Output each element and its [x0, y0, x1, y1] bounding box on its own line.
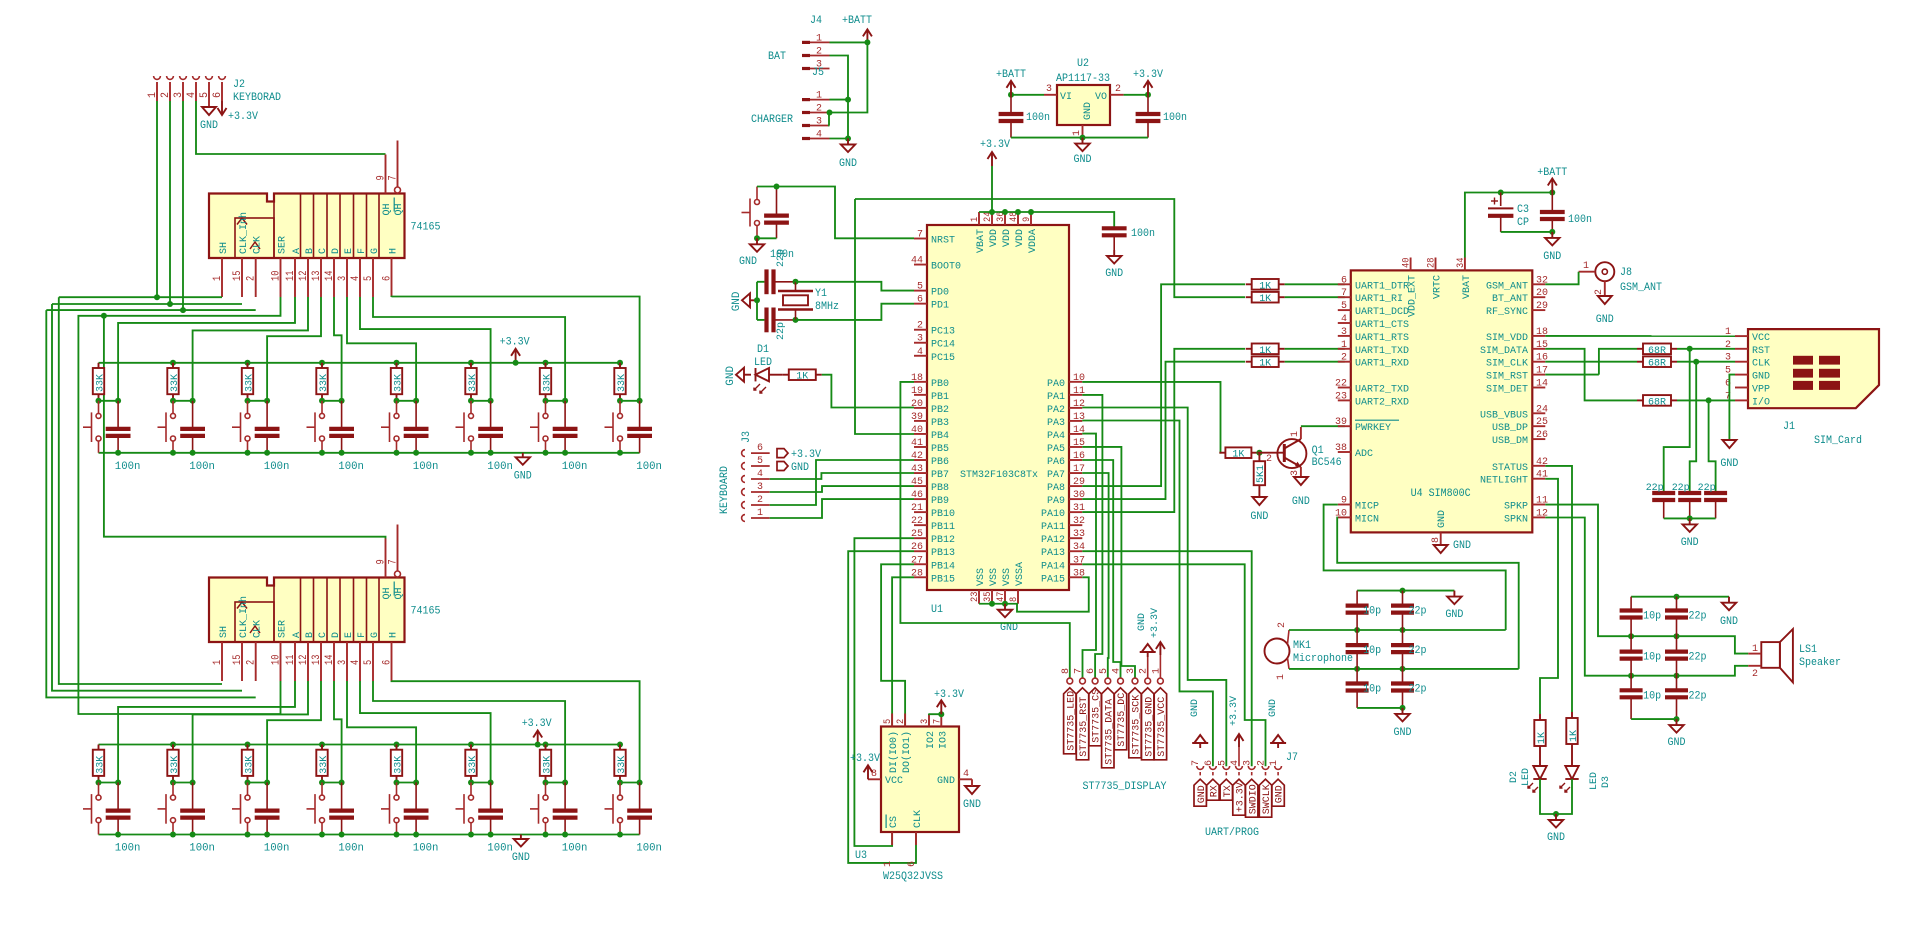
svg-text:5: 5 [363, 276, 375, 281]
svg-text:GND: GND [1436, 510, 1448, 528]
svg-text:A: A [291, 247, 303, 254]
U2 pin 3 VI [1044, 94, 1057, 96]
GSM module U4 SIM800C [1351, 270, 1533, 532]
capacitor 100n at VBAT [1551, 193, 1553, 213]
ground at mic caps top [1453, 591, 1455, 597]
svg-text:SIM_RST: SIM_RST [1486, 371, 1528, 383]
resistor 1K UART1_RI [1246, 296, 1252, 298]
svg-text:UART1_RI: UART1_RI [1355, 293, 1403, 305]
U4 pin 4 UART1_CTS [1338, 322, 1351, 324]
svg-text:PB1: PB1 [931, 391, 949, 403]
wire J2.2 down [169, 101, 171, 304]
switch key cell 4 [321, 783, 323, 796]
svg-text:PB7: PB7 [931, 469, 949, 481]
svg-text:GND: GND [200, 120, 218, 132]
svg-text:CLK: CLK [252, 619, 264, 638]
resistor 33K key cell 4 [319, 742, 325, 748]
svg-text:U1: U1 [931, 604, 943, 616]
wire STATUS to D3 [1545, 466, 1572, 712]
resistor 33K key cell 5 [394, 742, 400, 748]
wire PB13 to U3 CLK [848, 551, 916, 863]
svg-text:39: 39 [911, 411, 923, 423]
wire 74165a output to key cell [193, 297, 308, 401]
wire PB12 to U3 CS [854, 538, 914, 846]
ground at SIM pin5 [1722, 440, 1736, 448]
svg-text:D1: D1 [757, 344, 769, 356]
svg-text:PA7: PA7 [1047, 469, 1065, 481]
svg-text:+3.3V: +3.3V [1133, 69, 1163, 81]
switch key cell 8 [619, 783, 621, 796]
svg-text:GND: GND [1292, 496, 1310, 508]
svg-text:PB0: PB0 [931, 378, 949, 390]
wire PB15 to U3 DI [892, 577, 914, 726]
U5a pin 2 [255, 258, 257, 297]
U1 pin 9 VDDA [1030, 212, 1032, 225]
svg-text:74165: 74165 [411, 606, 441, 618]
svg-text:SER: SER [277, 235, 289, 254]
svg-text:6: 6 [917, 294, 923, 306]
svg-text:2: 2 [1752, 668, 1758, 680]
U5a pin 14 [333, 258, 335, 297]
svg-text:3: 3 [173, 92, 185, 98]
+3.3V symbol at U2 output [1147, 81, 1149, 95]
resistor 1K at D3 [1566, 718, 1577, 744]
svg-text:PB12: PB12 [931, 534, 955, 546]
J7 pin 2 SWCLK [1262, 766, 1269, 769]
svg-text:6: 6 [382, 660, 394, 665]
svg-text:6: 6 [1341, 274, 1347, 286]
wire 74165b output to key cell [193, 681, 308, 783]
switch key cell 1 [98, 783, 100, 796]
U1 pin 4 PC15 [914, 355, 927, 357]
flash memory U3 W25Q32JVSS [881, 727, 959, 833]
U4 pin 38 ADC [1338, 451, 1351, 453]
svg-text:2: 2 [917, 320, 923, 332]
svg-text:PA13: PA13 [1041, 547, 1065, 559]
resistor 1K UART1_TXD [1246, 348, 1252, 350]
wire 74165a output to key cell [347, 297, 416, 401]
svg-text:PA12: PA12 [1041, 534, 1065, 546]
svg-text:SPKN: SPKN [1504, 513, 1528, 525]
ground at U3 [965, 786, 979, 794]
global label +3.3V at J3.6 [777, 449, 788, 458]
svg-text:1K: 1K [1259, 345, 1272, 357]
svg-text:PB9: PB9 [931, 495, 949, 507]
svg-text:1K: 1K [796, 371, 809, 383]
U4 pin 20 BT_ANT [1532, 296, 1545, 298]
svg-text:1: 1 [757, 507, 763, 519]
wire bus J2.1 to 74165s pin1 [59, 296, 222, 298]
U1 pin 47 VSS [1004, 590, 1006, 604]
wire U2 ground rail [1011, 137, 1148, 139]
wire C3 ground [1501, 231, 1553, 233]
svg-text:USB_VBUS: USB_VBUS [1480, 409, 1528, 421]
U1 pin 41 PB5 [914, 446, 927, 448]
svg-text:1: 1 [1275, 674, 1287, 680]
svg-text:22p: 22p [1409, 684, 1427, 696]
svg-text:47: 47 [995, 592, 1007, 602]
svg-text:33K: 33K [467, 373, 479, 392]
svg-text:PA3: PA3 [1047, 417, 1065, 429]
svg-text:1K: 1K [1259, 358, 1272, 370]
J7 pin 1 GND [1275, 766, 1282, 769]
wire PA6 to display DC [1082, 460, 1120, 678]
svg-text:PB14: PB14 [931, 560, 955, 572]
svg-text:+3.3V: +3.3V [500, 336, 530, 348]
svg-text:GND: GND [1668, 737, 1686, 749]
svg-text:4: 4 [186, 92, 198, 98]
svg-text:41: 41 [911, 437, 923, 449]
ground at J4 [847, 139, 849, 145]
resistor 33K key cell 4 [319, 360, 325, 366]
svg-text:22p: 22p [1689, 652, 1707, 664]
svg-text:6: 6 [1085, 668, 1097, 674]
U1 pin 26 PB13 [914, 550, 927, 552]
GND at display pin2 [1147, 657, 1149, 678]
U1 pin 21 PB10 [914, 511, 927, 513]
U1 pin 25 PB12 [914, 537, 927, 539]
crystal Y1 8MHz [793, 279, 799, 285]
svg-text:1K: 1K [1569, 730, 1580, 742]
svg-text:GND: GND [1453, 540, 1471, 552]
svg-text:100n: 100n [1131, 228, 1155, 240]
svg-text:33K: 33K [616, 755, 628, 774]
svg-text:100n: 100n [487, 843, 513, 855]
svg-text:KEYBOARD: KEYBOARD [719, 466, 731, 514]
svg-text:44: 44 [911, 255, 923, 267]
svg-text:G: G [369, 248, 381, 254]
U1 pin 34 PA13 [1069, 550, 1082, 552]
svg-text:22p: 22p [1409, 645, 1427, 657]
capacitor 100n key cell 7 [564, 401, 566, 429]
svg-text:5: 5 [1341, 300, 1347, 312]
svg-text:6: 6 [757, 442, 763, 454]
svg-text:PB15: PB15 [931, 573, 955, 585]
wire PA15 to VSSA rail [1017, 577, 1089, 611]
wire SER1 bus to bottom block [78, 297, 280, 714]
svg-text:2: 2 [1266, 453, 1272, 465]
svg-text:CLK: CLK [1752, 358, 1771, 370]
resistor 33K key cell 1 [98, 363, 100, 368]
svg-text:1: 1 [1289, 431, 1301, 437]
svg-text:1: 1 [1268, 760, 1280, 766]
svg-text:U3: U3 [855, 850, 867, 862]
svg-text:UART2_RXD: UART2_RXD [1355, 396, 1409, 408]
svg-text:VDD: VDD [988, 229, 1000, 247]
svg-text:W25Q32JVSS: W25Q32JVSS [883, 871, 943, 883]
svg-text:PA1: PA1 [1047, 391, 1065, 403]
switch key cell 8 [619, 401, 621, 414]
svg-text:PA2: PA2 [1047, 404, 1065, 416]
capacitor 100n key cell 3 [266, 401, 268, 429]
shift register U5b 74165 body [209, 578, 405, 643]
wire reset RC [757, 187, 914, 239]
svg-text:VI: VI [1060, 91, 1072, 103]
U3 pin 8 VCC [868, 778, 881, 780]
svg-text:VO: VO [1095, 91, 1107, 103]
connector J2 KEYBORAD [154, 76, 161, 79]
svg-text:PA5: PA5 [1047, 443, 1065, 455]
display pin 3 ST7735_SCK [1132, 678, 1138, 684]
svg-text:Y1: Y1 [815, 288, 827, 300]
svg-text:ST7735_DC: ST7735_DC [1117, 693, 1128, 747]
U4 pin 7 UART1_RI [1338, 296, 1351, 298]
U5b pin 12 [307, 642, 309, 681]
U1 pin 32 PA11 [1069, 524, 1082, 526]
ground at SIM caps [1689, 518, 1691, 524]
+3.3V at display pin1 [1159, 655, 1161, 678]
svg-text:100n: 100n [1163, 112, 1187, 124]
wire I/O to 22p cap3 [1709, 400, 1716, 493]
capacitor 22p SIM 2 [1678, 491, 1701, 495]
svg-text:UART2_TXD: UART2_TXD [1355, 384, 1409, 396]
svg-text:GND: GND [1681, 537, 1699, 549]
svg-text:28: 28 [1426, 258, 1438, 268]
capacitor 10p mic row3 [1356, 669, 1358, 684]
svg-text:D: D [330, 632, 342, 638]
J1 pin 2 RST [1735, 348, 1748, 350]
+3.3V rail of key matrix [99, 744, 621, 746]
svg-text:22: 22 [911, 515, 923, 527]
U1 pin 14 PA4 [1069, 433, 1082, 435]
svg-text:10p: 10p [1363, 606, 1381, 618]
svg-text:PD1: PD1 [931, 300, 949, 312]
svg-text:32: 32 [1073, 515, 1085, 527]
svg-text:F: F [356, 632, 368, 638]
U5a pin 13 [320, 258, 322, 297]
resistor 68R CLK [1545, 361, 1637, 363]
capacitor 100n key cell 3 [266, 783, 268, 811]
resistor 33K key cell 8 [617, 742, 623, 748]
svg-text:9: 9 [376, 175, 388, 180]
resistor 33K key cell 3 [245, 360, 251, 366]
svg-text:4: 4 [757, 468, 763, 480]
svg-text:1: 1 [147, 92, 159, 98]
U1 pin 29 PA8 [1069, 485, 1082, 487]
resistor 33K key cell 6 [468, 742, 474, 748]
shift register U5a 74165 body [209, 194, 405, 259]
svg-text:PB2: PB2 [931, 404, 949, 416]
svg-text:MK1: MK1 [1293, 640, 1311, 652]
wire J4 nets [830, 41, 868, 43]
U5b pin 5 [372, 642, 374, 681]
svg-text:Q1: Q1 [1312, 445, 1324, 457]
svg-text:33K: 33K [169, 755, 181, 774]
wire J3.3 to PB8 [770, 486, 914, 492]
svg-text:5: 5 [917, 281, 923, 293]
U4 pin 32 GSM_ANT [1532, 283, 1545, 285]
svg-text:STM32F103C8Tx: STM32F103C8Tx [960, 470, 1038, 481]
ground at U1 VDD cap [1113, 250, 1115, 256]
svg-text:H: H [388, 632, 400, 638]
capacitor 22p mic row3 [1402, 669, 1404, 684]
svg-text:GSM_ANT: GSM_ANT [1620, 282, 1662, 294]
svg-text:3: 3 [337, 660, 349, 665]
svg-text:34: 34 [1455, 258, 1467, 268]
+BATT symbol at J4 [866, 29, 868, 42]
capacitor 22p SIM 1 [1652, 491, 1675, 495]
svg-text:GND: GND [1189, 699, 1201, 717]
svg-text:2: 2 [1593, 289, 1605, 295]
svg-text:68R: 68R [1648, 358, 1667, 370]
svg-text:VBAT: VBAT [1461, 275, 1473, 299]
U1 pin 30 PA9 [1069, 498, 1082, 500]
svg-text:33K: 33K [616, 373, 628, 392]
U4 pin 3 UART1_RTS [1338, 335, 1351, 337]
J1 pin 6 VPP [1735, 387, 1748, 389]
regulator U2 AP1117-33 [1057, 85, 1110, 125]
switch SW reset [755, 200, 760, 205]
U5b pin 4 [359, 642, 361, 681]
svg-text:2: 2 [816, 103, 822, 115]
svg-text:2: 2 [1341, 352, 1347, 364]
svg-text:RX: RX [1210, 785, 1221, 797]
wire MICN wrap [1337, 518, 1519, 669]
Q1 emitter to ground [1300, 467, 1302, 477]
svg-text:100n: 100n [487, 461, 513, 473]
svg-text:4: 4 [350, 659, 362, 665]
U3 pin 1 CS [891, 832, 893, 845]
svg-text:43: 43 [911, 463, 923, 475]
wire PA5 to display SCK [1082, 447, 1135, 678]
wire J3.1 to PB9 [770, 499, 914, 518]
svg-text:1K: 1K [1259, 280, 1272, 292]
svg-text:KEYBORAD: KEYBORAD [233, 92, 281, 104]
U4 pin 23 UART2_RXD [1338, 399, 1351, 401]
svg-text:PC15: PC15 [931, 352, 955, 364]
svg-text:5: 5 [199, 92, 211, 98]
svg-text:33: 33 [1073, 528, 1085, 540]
ground at U4 [1434, 545, 1448, 553]
svg-text:J3: J3 [741, 431, 753, 443]
wire PB0 to display LED [900, 382, 1069, 678]
svg-text:BC546: BC546 [1312, 457, 1342, 469]
capacitor 22p SIM 3 [1704, 491, 1727, 495]
svg-text:GND: GND [1720, 616, 1738, 628]
capacitor 10p speaker row3 [1630, 676, 1632, 691]
capacitor 100n key cell 4 [341, 783, 343, 811]
svg-text:GND: GND [1082, 102, 1094, 120]
+3.3V at U3 VCC [867, 765, 869, 779]
svg-text:VDD_EXT: VDD_EXT [1407, 275, 1419, 317]
svg-text:CHARGER: CHARGER [751, 114, 793, 126]
svg-text:20: 20 [1536, 287, 1548, 299]
svg-text:PA8: PA8 [1047, 482, 1065, 494]
U1 pin 38 PA15 [1069, 576, 1082, 578]
wire PA0 to Q1 base resistor [1082, 382, 1220, 453]
capacitor 100n at U2 output [1147, 95, 1149, 114]
svg-text:33K: 33K [318, 755, 330, 774]
svg-text:2: 2 [160, 92, 172, 98]
svg-text:NRST: NRST [931, 235, 955, 247]
svg-text:C: C [317, 248, 329, 254]
svg-text:2: 2 [895, 719, 907, 724]
U4 pin 2 UART1_RXD [1338, 361, 1351, 363]
J7 pin 4 +3.3V [1236, 766, 1243, 769]
svg-text:LED: LED [1588, 772, 1600, 790]
U1 pin 40 PB4 [914, 433, 927, 435]
svg-text:14: 14 [324, 654, 336, 665]
svg-text:7: 7 [388, 175, 400, 180]
capacitor 100n at U2 input [1010, 95, 1012, 114]
wire 74165a output to key cell [334, 297, 342, 401]
U1 pin 44 BOOT0 [914, 264, 927, 266]
svg-text:UART/PROG: UART/PROG [1205, 827, 1259, 839]
svg-text:UART1_RTS: UART1_RTS [1355, 332, 1409, 344]
wire U1 VSS rail [979, 603, 1018, 605]
capacitor 100n reset [776, 187, 778, 216]
svg-text:22p: 22p [1689, 690, 1707, 702]
capacitor C3 CP polarized [1500, 193, 1502, 207]
svg-text:10p: 10p [1363, 645, 1381, 657]
capacitor 100n key cell 8 [639, 783, 641, 811]
U5b pin 9 QH [385, 539, 387, 578]
U1 pin 33 PA12 [1069, 537, 1082, 539]
svg-text:LED: LED [1520, 768, 1532, 786]
svg-text:100n: 100n [189, 843, 215, 855]
svg-text:UART1_CTS: UART1_CTS [1355, 319, 1409, 331]
svg-text:IO2: IO2 [925, 731, 937, 749]
J1 pin 3 CLK [1735, 361, 1748, 363]
svg-text:PA4: PA4 [1047, 430, 1065, 442]
svg-text:100n: 100n [1026, 112, 1050, 124]
U2 pin 2 VO [1110, 94, 1124, 96]
svg-text:J7: J7 [1286, 752, 1298, 764]
wire mic caps top rail [1357, 590, 1454, 592]
svg-text:8: 8 [1008, 597, 1020, 602]
resistor 68R RST [1599, 349, 1637, 375]
svg-text:33K: 33K [542, 373, 554, 392]
J7 pin 7 GND [1197, 766, 1204, 769]
svg-text:100n: 100n [1568, 214, 1592, 226]
U4 pin 28 VRTC [1435, 258, 1437, 271]
svg-text:7: 7 [1073, 668, 1085, 674]
+3.3V rail of key matrix [99, 362, 621, 364]
ground symbol at J2 pin5 [208, 101, 210, 107]
Q1 collector to PWRKEY [1300, 427, 1302, 439]
U5a pin 10 [280, 258, 282, 297]
svg-text:SIM_Card: SIM_Card [1814, 435, 1862, 447]
wire PB14 to U3 DO [881, 564, 914, 726]
ground at C3 [1551, 232, 1553, 238]
wire IO2 IO3 to +3.3V [929, 713, 941, 716]
resistor 1K at Q1 base [1219, 452, 1225, 454]
svg-text:1: 1 [882, 861, 894, 867]
U4 pin 12 SPKN [1532, 516, 1545, 518]
resistor 33K key cell 8 [617, 360, 623, 366]
wire mic pin2 rail [1289, 629, 1506, 631]
svg-text:CLK: CLK [252, 235, 264, 254]
wire PA13 to J7 SWDIO [1082, 551, 1251, 766]
wire 74165b output to key cell [360, 681, 491, 783]
svg-text:100n: 100n [264, 843, 290, 855]
svg-text:6: 6 [1203, 760, 1215, 766]
wire PA4 to display RST [1082, 434, 1096, 678]
resistor 1K UART1_RXD [1246, 361, 1252, 363]
U5a pin 1 [221, 258, 223, 297]
resistor 33K key cell 2 [170, 360, 176, 366]
J8 pin2 to ground [1604, 281, 1606, 296]
ground at speaker caps bottom [1676, 719, 1678, 725]
svg-text:PB6: PB6 [931, 456, 949, 468]
U1 pin 15 PA5 [1069, 446, 1082, 448]
U5a pin 6 [391, 258, 393, 297]
svg-text:+3.3V: +3.3V [934, 689, 964, 701]
wire J2.1 down [156, 101, 158, 297]
svg-text:100n: 100n [636, 843, 662, 855]
svg-text:1K: 1K [1232, 449, 1245, 461]
capacitor 100n key cell 5 [415, 401, 417, 429]
